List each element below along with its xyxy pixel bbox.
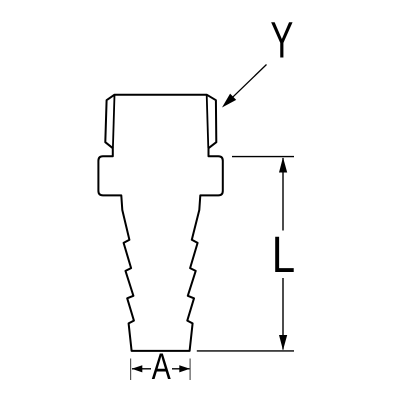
svg-text:A: A [152, 346, 171, 387]
extension line A right [189, 359, 191, 381]
leader line for Y [231, 65, 267, 99]
thread root line right [207, 95, 209, 148]
arrowhead L top [279, 157, 287, 172]
fitting body outline [98, 95, 222, 351]
dimension line L upper segment [282, 158, 284, 231]
arrowhead A left [132, 365, 143, 372]
dimension line L lower segment [282, 278, 284, 350]
dimension line A left segment [132, 368, 151, 370]
svg-text:L: L [272, 226, 295, 283]
svg-text:Y: Y [270, 13, 293, 69]
arrowhead L bottom [279, 335, 287, 350]
extension line top (L) [232, 156, 294, 158]
extension line A left [130, 359, 132, 381]
leader arrowhead [222, 94, 236, 108]
thread root line left [113, 95, 115, 148]
dimension line A right segment [172, 368, 190, 370]
arrowhead A right [179, 365, 190, 372]
extension line bottom (L) [197, 350, 294, 352]
